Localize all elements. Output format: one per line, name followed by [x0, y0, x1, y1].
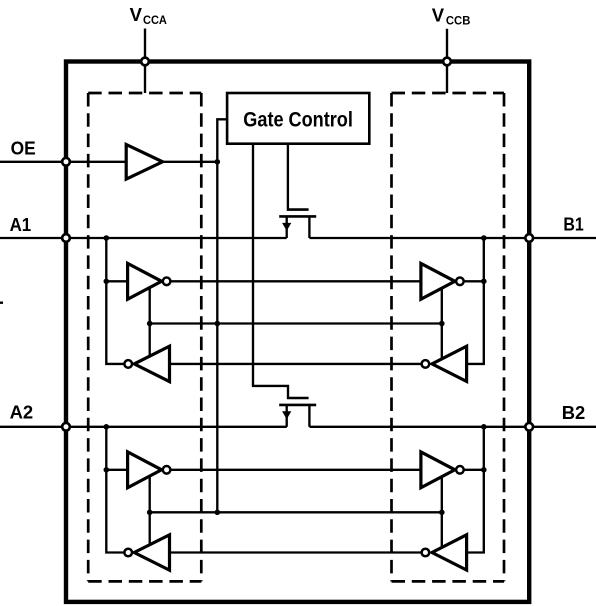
wire A2 [0, 426, 287, 428]
wire VCCA [144, 29, 146, 94]
inverter ch2 A-side forward [128, 452, 162, 488]
inverter ch2 A-side reverse [134, 535, 169, 570]
wire A1 to inverters [106, 238, 129, 364]
dashed block B-side [392, 93, 505, 581]
pin B1 terminal [525, 234, 533, 242]
pin OE terminal [62, 158, 70, 166]
wire B2 to inverters [467, 427, 484, 553]
node ch2 middle right [439, 510, 445, 516]
edge artifact mark [0, 302, 3, 304]
wire ch1 B1 inverter output to B1 [460, 280, 484, 282]
wire ch1 middle [150, 322, 442, 324]
transistor Q2 pass FET [279, 398, 316, 427]
wire gate of Q2 [253, 144, 288, 399]
pin A2 terminal [62, 423, 70, 431]
node ch1 middle right [439, 321, 445, 327]
node ch1 B inverter output [481, 279, 487, 285]
node B2 tap [481, 424, 487, 430]
svg-text:V: V [432, 4, 445, 25]
pin VCCB terminal [443, 58, 451, 66]
wire VCCB [446, 29, 448, 93]
svg-text:Gate Control: Gate Control [243, 108, 353, 132]
wire A1 [0, 237, 287, 239]
svg-text:OE: OE [11, 138, 36, 159]
wire gate-control enable (OE vertical) [217, 119, 227, 512]
svg-text:CCA: CCA [143, 13, 167, 27]
node ch2 middle OE [215, 510, 221, 516]
wire ch1 upper inverter output [167, 280, 421, 282]
node A2 tap [104, 424, 110, 430]
wire ch2 B2 inverter output to B2 [460, 469, 484, 471]
wire OE input [0, 161, 126, 163]
node ch2 middle left [147, 510, 153, 516]
inverter ch1 A-side reverse [134, 346, 169, 381]
wire gate of Q1 [287, 144, 289, 211]
wire ch1 keeper vertical left [149, 286, 151, 358]
outer package box [66, 62, 529, 602]
node ch1 A inverter input [104, 279, 110, 285]
node A1 tap [104, 235, 110, 241]
wire B2 [310, 426, 596, 428]
inverter ch1 A-side forward [128, 263, 162, 299]
inverter ch1 B-side reverse [432, 346, 467, 381]
pin B2 terminal [525, 423, 533, 431]
node ch2 B inverter output [481, 467, 487, 473]
wire ch2 keeper vertical left [149, 475, 151, 547]
node OE-gate junction [215, 159, 221, 165]
svg-text:V: V [130, 4, 143, 25]
pin VCCA terminal [141, 58, 149, 66]
wire B1 to inverters [467, 238, 484, 364]
wire B1 [309, 237, 596, 239]
svg-text:CCB: CCB [446, 13, 471, 27]
svg-text:B2: B2 [562, 402, 586, 423]
svg-text:B1: B1 [563, 214, 583, 235]
wire ch1 lower inverter input [170, 363, 428, 365]
node ch1 middle left [147, 321, 153, 327]
wire ch2 upper inverter output [167, 469, 421, 471]
inverter ch2 B-side forward [421, 452, 455, 488]
node ch2 A inverter input [104, 467, 110, 473]
inverter ch1 B-side forward [421, 263, 455, 299]
wire ch2 middle [150, 511, 442, 513]
svg-text:A2: A2 [10, 402, 34, 423]
inverter ch2 B-side reverse [432, 535, 467, 570]
wire ch1 keeper vertical right [441, 286, 443, 360]
Gate Control box U1 [227, 93, 369, 144]
pin A1 terminal [62, 234, 70, 242]
wire OE buffer output [162, 161, 217, 163]
transistor Q1 pass FET [279, 210, 316, 238]
node B1 tap [481, 235, 487, 241]
wire ch2 keeper vertical right [441, 475, 443, 549]
dashed block A-side [88, 93, 201, 581]
wire ch2 lower inverter input [170, 551, 428, 553]
node ch1 middle OE [215, 321, 221, 327]
svg-text:A1: A1 [10, 214, 32, 235]
wire A2 inverter input stub [106, 469, 127, 471]
wire A1 inverter input stub [106, 280, 127, 282]
buffer OE [126, 145, 162, 180]
wire A2 to inverters [106, 427, 129, 553]
